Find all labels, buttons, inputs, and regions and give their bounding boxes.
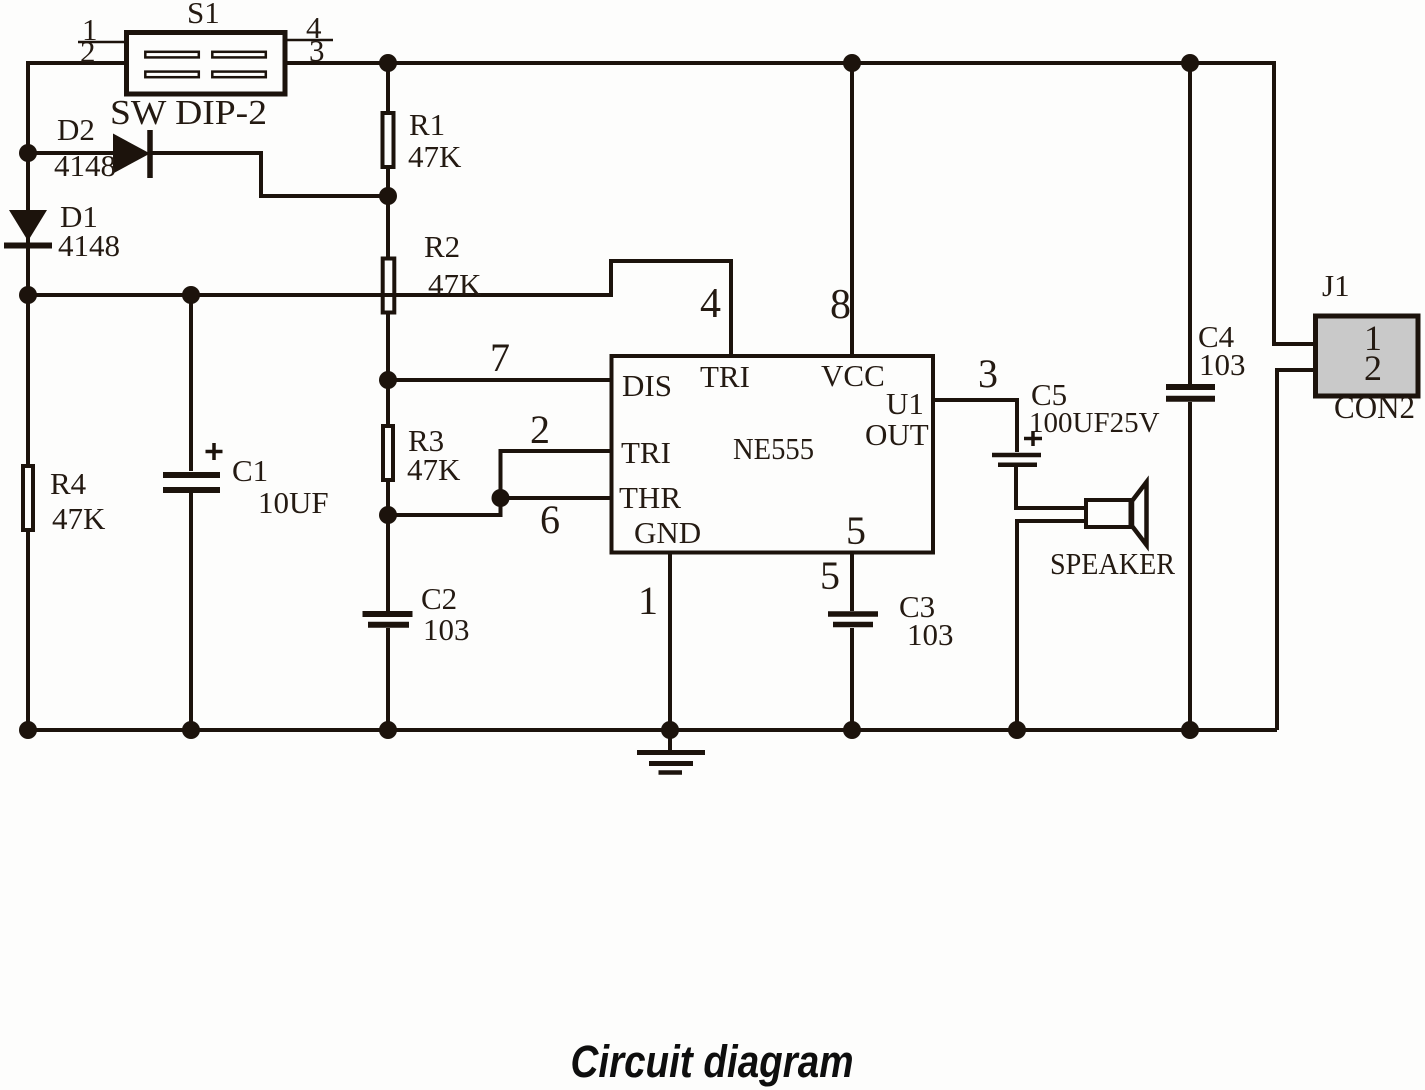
resistor R4 bbox=[23, 466, 33, 530]
wire: D2 cathode to R1/R2 node bbox=[152, 153, 388, 196]
svg-text:J1: J1 bbox=[1322, 268, 1350, 303]
wire: pin 1 GND to rail bbox=[668, 554, 672, 730]
svg-text:47K: 47K bbox=[407, 452, 461, 487]
capacitor C3 bbox=[828, 614, 878, 625]
switch slots bbox=[145, 52, 265, 77]
node: C4/top rail bbox=[1181, 54, 1199, 72]
svg-text:R2: R2 bbox=[424, 229, 460, 264]
capacitor C1 bbox=[163, 475, 220, 490]
svg-text:103: 103 bbox=[1199, 347, 1246, 382]
wire: bottom ground rail bbox=[28, 728, 1277, 732]
node: bottom rail left corner bbox=[19, 721, 37, 739]
node: D2/left rail bbox=[19, 144, 37, 162]
C1 plus sign bbox=[206, 443, 223, 460]
diode D2 bbox=[113, 130, 150, 178]
wire: left vertical rail + top-left rail segment bbox=[28, 63, 124, 730]
resistor R3 bbox=[383, 426, 393, 480]
svg-text:R4: R4 bbox=[50, 466, 87, 501]
node: C2/bottom rail bbox=[379, 721, 397, 739]
svg-text:4148: 4148 bbox=[58, 228, 120, 263]
svg-text:2: 2 bbox=[1364, 348, 1382, 388]
wire: R1 top from rail bbox=[386, 63, 390, 111]
svg-text:2: 2 bbox=[80, 34, 96, 69]
switch pin 4 stub bbox=[288, 39, 334, 42]
svg-text:SPEAKER: SPEAKER bbox=[1050, 546, 1175, 581]
wire: C3 to rail bbox=[850, 628, 854, 730]
svg-text:TRI: TRI bbox=[621, 435, 671, 470]
svg-text:NE555: NE555 bbox=[733, 431, 814, 466]
node: VCC/top rail bbox=[843, 54, 861, 72]
wire: top rail (switch pin3 to right corner) down to J1 pin 1 bbox=[287, 63, 1313, 344]
wire: pin 6 THR bbox=[501, 496, 611, 500]
wire: R1 bottom to node bbox=[386, 169, 390, 196]
svg-text:3: 3 bbox=[978, 351, 998, 396]
svg-text:1: 1 bbox=[638, 578, 658, 623]
svg-text:5: 5 bbox=[846, 508, 866, 553]
node: speaker/bottom rail bbox=[1008, 721, 1026, 739]
svg-text:2: 2 bbox=[530, 407, 550, 452]
svg-text:7: 7 bbox=[490, 335, 510, 380]
resistor R2 bbox=[383, 259, 395, 313]
node: C4/bottom rail bbox=[1181, 721, 1199, 739]
wire: pin2 TRI jog to THR node bbox=[388, 451, 610, 515]
switch pin 1 stub bbox=[78, 41, 124, 44]
wire: C1 bottom to rail bbox=[189, 493, 193, 730]
svg-text:DIS: DIS bbox=[622, 368, 672, 403]
wire: node to R2 top bbox=[386, 196, 390, 258]
wire: C4 bottom to rail bbox=[1188, 402, 1192, 730]
svg-text:GND: GND bbox=[634, 515, 701, 550]
wire: pin7 node to R3 bbox=[386, 380, 390, 424]
C5 plus sign bbox=[1024, 431, 1042, 446]
capacitor C4 bbox=[1166, 387, 1215, 399]
capacitor C2 bbox=[363, 614, 413, 625]
node: R3/C2 bbox=[379, 506, 397, 524]
node: R2/R3/pin7 bbox=[379, 371, 397, 389]
ground bbox=[637, 730, 705, 773]
svg-text:SW DIP-2: SW DIP-2 bbox=[110, 93, 267, 132]
svg-text:8: 8 bbox=[830, 282, 851, 328]
wire: C2 bottom to rail bbox=[386, 628, 390, 730]
node: C1/bottom rail bbox=[182, 721, 200, 739]
node: GND/bottom rail bbox=[661, 721, 679, 739]
svg-text:Circuit diagram: Circuit diagram bbox=[571, 1036, 854, 1087]
wire: pin 8 VCC from top rail bbox=[850, 63, 854, 354]
capacitor C5 bbox=[992, 455, 1041, 465]
svg-text:100UF25V: 100UF25V bbox=[1029, 407, 1160, 439]
svg-text:THR: THR bbox=[619, 480, 681, 515]
wire: R2 bottom to pin7 node bbox=[386, 314, 390, 380]
svg-text:5: 5 bbox=[820, 553, 840, 598]
svg-text:U1: U1 bbox=[886, 386, 924, 421]
resistor R1 bbox=[383, 113, 394, 167]
node: R1/R2/D2 bbox=[379, 187, 397, 205]
wire: J1 pin 2 down to bottom rail bbox=[1277, 370, 1313, 730]
svg-text:C1: C1 bbox=[232, 453, 268, 488]
op-amp U1 NE555 box bbox=[612, 356, 934, 553]
wire: C4 top from rail bbox=[1188, 63, 1192, 384]
svg-text:47K: 47K bbox=[52, 501, 106, 536]
diode D1 bbox=[4, 210, 52, 246]
wire: pin 3 OUT to C5 bbox=[935, 400, 1017, 452]
switch S1 box bbox=[127, 33, 286, 95]
wire: pin 5 to C3 bbox=[850, 554, 854, 611]
node: TRI/THR bbox=[492, 489, 510, 507]
svg-text:3: 3 bbox=[309, 33, 325, 68]
svg-text:D2: D2 bbox=[57, 112, 95, 147]
svg-text:47K: 47K bbox=[408, 139, 462, 174]
speaker SPEAKER bbox=[1086, 482, 1147, 545]
svg-text:4: 4 bbox=[700, 281, 721, 327]
svg-text:47K: 47K bbox=[428, 267, 482, 302]
node: R1/top rail bbox=[379, 54, 397, 72]
wire: D2 anode from left rail bbox=[28, 151, 114, 155]
node: left rail/reset net bbox=[19, 286, 37, 304]
node: C1/reset net bbox=[182, 286, 200, 304]
svg-text:OUT: OUT bbox=[865, 417, 929, 452]
svg-text:R1: R1 bbox=[409, 107, 445, 142]
wire: speaker bottom terminal to rail bbox=[1017, 521, 1084, 730]
wire: C5 to speaker top terminal bbox=[1016, 467, 1084, 508]
svg-text:TRI: TRI bbox=[700, 359, 750, 394]
wire: pin 4 reset net (crosses R2) bbox=[28, 261, 731, 354]
svg-text:CON2: CON2 bbox=[1334, 389, 1415, 425]
svg-text:10UF: 10UF bbox=[258, 485, 329, 520]
svg-text:4148: 4148 bbox=[54, 148, 116, 183]
wire: pin 7 DIS bbox=[388, 378, 610, 382]
svg-text:C2: C2 bbox=[421, 581, 457, 616]
svg-text:S1: S1 bbox=[187, 0, 220, 30]
wire: R3 node to C2 bbox=[386, 515, 390, 611]
svg-text:6: 6 bbox=[540, 497, 560, 542]
svg-text:103: 103 bbox=[907, 617, 954, 652]
svg-text:103: 103 bbox=[423, 612, 470, 647]
wire: R3 bottom to node bbox=[386, 482, 390, 515]
svg-text:VCC: VCC bbox=[821, 358, 885, 393]
node: C3/bottom rail bbox=[843, 721, 861, 739]
connector J1 CON2 bbox=[1316, 316, 1419, 396]
wire: C1 top from node bbox=[189, 295, 193, 471]
